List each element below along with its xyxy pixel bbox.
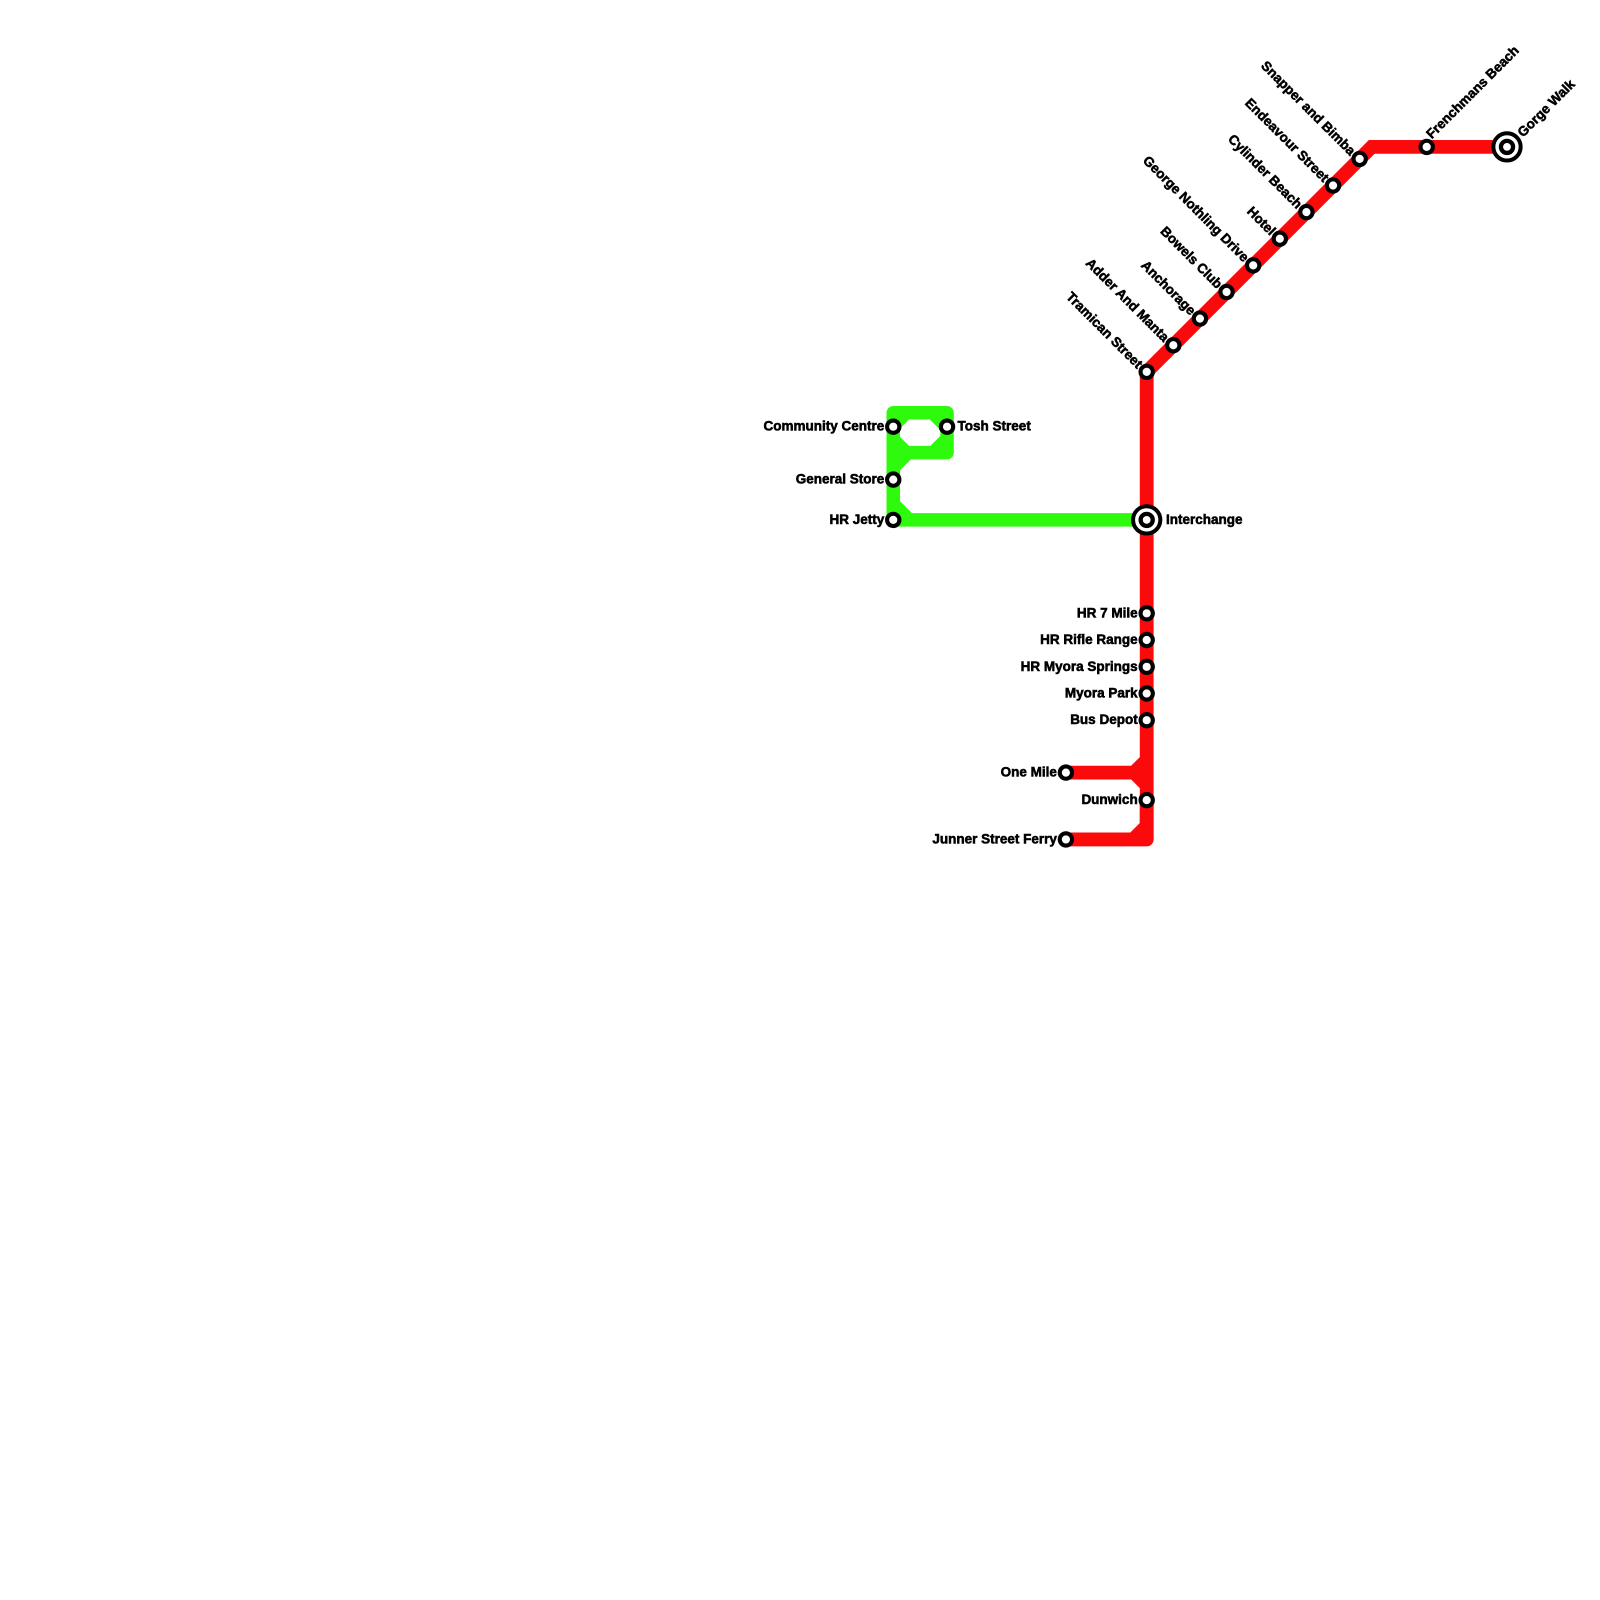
svg-text:Interchange: Interchange: [1166, 512, 1243, 527]
svg-text:General Store: General Store: [796, 472, 885, 487]
svg-text:Community Centre: Community Centre: [763, 419, 884, 434]
svg-text:Myora Park: Myora Park: [1065, 686, 1138, 701]
svg-text:Dunwich: Dunwich: [1081, 792, 1137, 807]
svg-text:Tosh Street: Tosh Street: [958, 419, 1032, 434]
svg-text:HR Jetty: HR Jetty: [829, 512, 884, 527]
svg-text:One Mile: One Mile: [1001, 765, 1058, 780]
svg-text:HR 7 Mile: HR 7 Mile: [1077, 605, 1138, 620]
svg-text:HR Rifle Range: HR Rifle Range: [1040, 632, 1138, 647]
svg-text:HR Myora Springs: HR Myora Springs: [1021, 659, 1138, 674]
svg-text:Bus Depot: Bus Depot: [1070, 712, 1138, 727]
svg-text:Junner Street Ferry: Junner Street Ferry: [932, 831, 1057, 846]
